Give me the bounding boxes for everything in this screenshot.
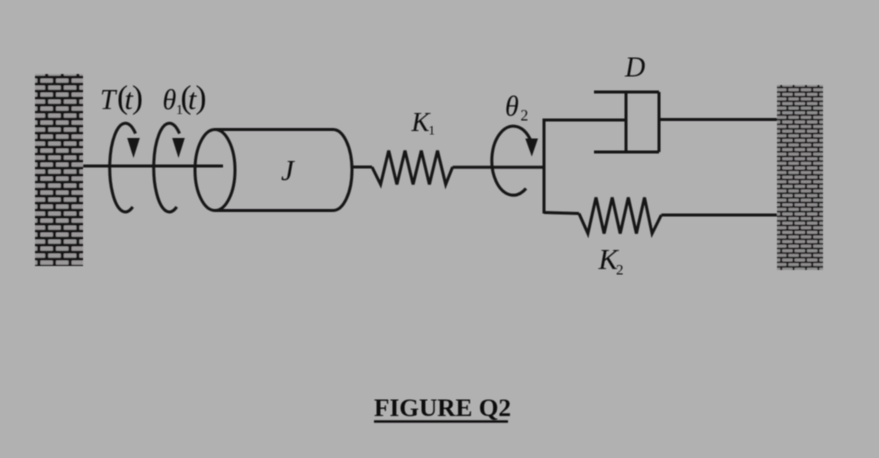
svg-text:θ: θ <box>163 85 177 116</box>
svg-text:T: T <box>100 85 118 116</box>
node: junction bar <box>543 119 546 214</box>
wire: spring K1 to junction node <box>453 166 544 169</box>
rotation arrow theta2 <box>492 126 538 195</box>
svg-text:2: 2 <box>521 108 529 125</box>
inertia cylinder J <box>195 130 352 211</box>
left wall (fixed support) <box>35 74 83 266</box>
svg-text:2: 2 <box>616 263 624 279</box>
wire: junction to spring K2 <box>544 213 579 214</box>
svg-text:): ) <box>132 80 143 116</box>
svg-text:1: 1 <box>429 123 436 138</box>
svg-text:D: D <box>624 53 645 84</box>
svg-text:θ: θ <box>505 92 519 123</box>
wire: rod cylinder to spring K1 <box>352 166 372 169</box>
damper D (dashpot) <box>594 92 659 152</box>
wire: piston rod to damper <box>544 119 626 122</box>
spring K2 <box>579 198 661 234</box>
torque arrow T(t) <box>110 123 140 212</box>
spring K1 <box>372 151 453 185</box>
wire: damper to right wall <box>659 118 777 121</box>
right wall (fixed support) <box>777 85 823 270</box>
svg-text:J: J <box>281 155 295 187</box>
svg-text:): ) <box>196 80 207 116</box>
wire: spring K2 to right wall <box>661 214 777 217</box>
wire: input shaft from left wall <box>83 165 223 168</box>
svg-text:FIGURE Q2: FIGURE Q2 <box>374 394 511 422</box>
rotation arrow theta1 <box>154 123 185 212</box>
